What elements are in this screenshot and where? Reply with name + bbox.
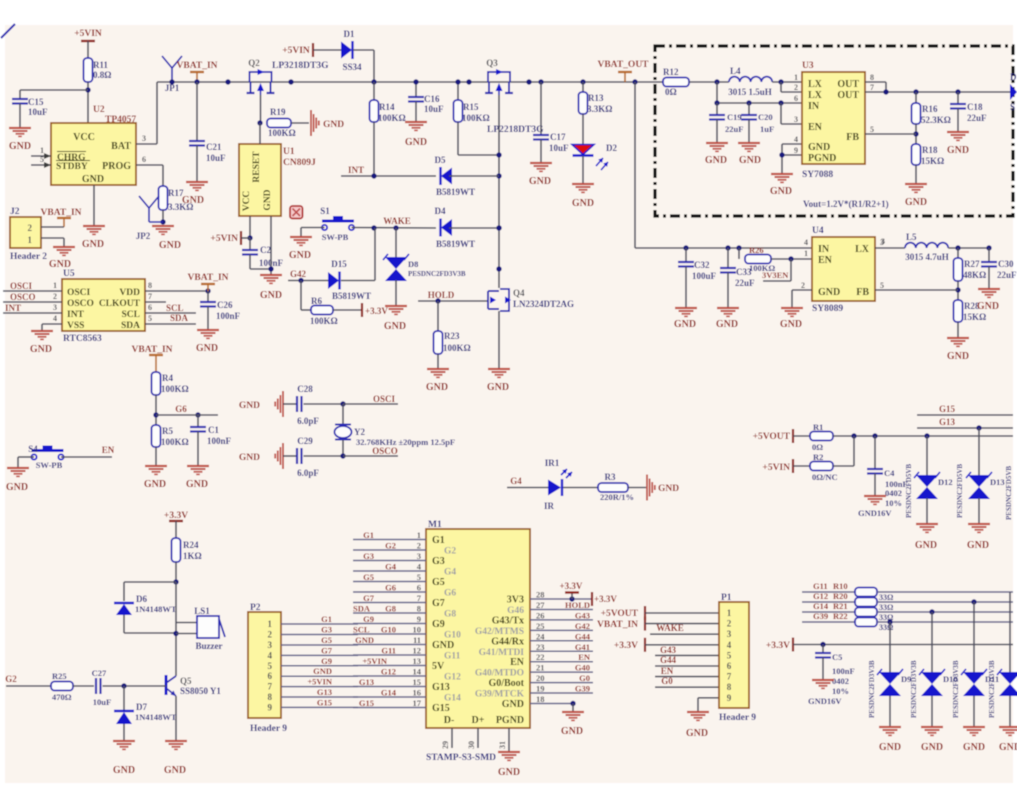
capacitor C26 — [200, 291, 241, 330]
resistor R26 — [739, 245, 812, 273]
dash-dot boundary box — [655, 46, 1013, 216]
resistor R25 — [51, 671, 94, 702]
svg-text:GND: GND — [529, 176, 551, 187]
diode D1 SS34 — [341, 29, 374, 82]
svg-text:GND: GND — [355, 635, 374, 645]
crystal Y2 — [335, 404, 456, 456]
M1 pin 24 wire — [530, 631, 593, 641]
svg-text:R6: R6 — [311, 296, 322, 306]
junction D4/Q3 gate — [496, 225, 501, 230]
M1 pin 2 wire — [353, 541, 426, 551]
svg-text:5: 5 — [40, 155, 44, 164]
svg-text:IR1: IR1 — [545, 458, 560, 468]
Q4 source wire — [498, 311, 500, 369]
capacitor C16 — [408, 82, 444, 122]
svg-text:4: 4 — [268, 650, 273, 660]
svg-text:GND: GND — [947, 351, 969, 362]
svg-text:Y2: Y2 — [354, 427, 365, 437]
net label G44 (M1 pin 24) — [575, 631, 591, 641]
svg-text:G5: G5 — [432, 577, 445, 588]
diode D5 B5819WT — [435, 155, 500, 197]
svg-text:0Ω: 0Ω — [665, 87, 677, 97]
ground D12 — [999, 727, 1017, 753]
junction U1 GND/C2 — [268, 266, 273, 271]
net INT wire (D5) — [341, 165, 436, 176]
M1 pin 27 wire — [530, 600, 593, 610]
svg-text:EN: EN — [818, 255, 833, 266]
svg-text:G6: G6 — [444, 589, 456, 599]
svg-text:100nF: 100nF — [832, 666, 855, 676]
M1 pin 18 wire — [530, 694, 573, 704]
ground U4 — [780, 308, 803, 330]
power port +5VOUT (R1) — [753, 429, 810, 443]
svg-text:C19: C19 — [727, 112, 742, 122]
svg-text:G4: G4 — [385, 562, 397, 572]
net label G13 (P2) — [317, 687, 332, 697]
junction FB U4 — [955, 287, 960, 292]
svg-text:LS1: LS1 — [194, 606, 210, 616]
svg-text:LX: LX — [855, 244, 870, 255]
svg-text:GND: GND — [686, 728, 708, 739]
ground D8 — [384, 306, 407, 332]
svg-text:G41: G41 — [575, 642, 590, 652]
svg-text:GND: GND — [963, 742, 985, 753]
svg-text:24: 24 — [536, 631, 545, 641]
svg-text:16: 16 — [413, 688, 422, 698]
inductor L4 — [728, 66, 802, 97]
svg-text:G0: G0 — [579, 673, 590, 683]
svg-text:10uF: 10uF — [424, 104, 444, 114]
M1 pin 21 wire — [530, 663, 593, 673]
svg-text:1N4148WT: 1N4148WT — [135, 712, 177, 722]
wire R15 to Q3 gate — [458, 122, 499, 155]
P2 pin 1 wire — [281, 623, 358, 625]
diode D15 B5819WT — [328, 228, 375, 301]
svg-text:GND: GND — [239, 401, 260, 411]
junctions U4 rail — [683, 245, 741, 250]
svg-text:GND: GND — [289, 250, 311, 261]
svg-text:SCL: SCL — [122, 310, 140, 320]
svg-text:J2: J2 — [10, 207, 20, 217]
svg-text:+5VOUT: +5VOUT — [601, 609, 639, 619]
capacitor C27 — [92, 668, 166, 707]
svg-text:25: 25 — [536, 621, 545, 631]
svg-text:LP3218DT3G: LP3218DT3G — [272, 61, 329, 71]
Q2 gate wire — [260, 95, 262, 123]
svg-text:8: 8 — [870, 73, 874, 82]
junction L4/LX — [778, 79, 783, 84]
svg-text:3: 3 — [268, 640, 273, 650]
svg-text:CLKOUT: CLKOUT — [99, 299, 141, 309]
svg-text:R25: R25 — [52, 671, 67, 681]
ground C17 — [529, 163, 552, 187]
svg-text:G14: G14 — [381, 688, 397, 698]
P2 pin 8 wire — [281, 696, 358, 698]
svg-text:30: 30 — [467, 741, 476, 749]
svg-text:GND: GND — [263, 189, 273, 210]
S4 left wire to ground — [18, 457, 34, 468]
main VBAT rail — [157, 81, 663, 83]
capacitor C19 — [709, 103, 743, 143]
capacitor C21 — [189, 141, 226, 182]
svg-text:GND: GND — [572, 198, 594, 209]
net label G5 (P2) — [321, 635, 332, 645]
svg-text:Vout=1.2V*(R1/R2+1): Vout=1.2V*(R1/R2+1) — [803, 199, 889, 209]
svg-text:SCL: SCL — [166, 303, 184, 313]
ground M1 pin 18 — [561, 712, 584, 737]
svg-text:Q4: Q4 — [513, 288, 525, 298]
power port VBAT_IN (R4) — [132, 345, 173, 372]
module M1 STAMP-S3-SMD box — [426, 520, 530, 763]
svg-text:22: 22 — [536, 652, 545, 662]
svg-text:3: 3 — [727, 629, 732, 639]
svg-text:G13: G13 — [359, 677, 374, 687]
svg-text:GND: GND — [113, 765, 135, 776]
svg-text:Buzzer: Buzzer — [196, 641, 223, 651]
svg-text:D-: D- — [444, 715, 455, 726]
M1 pin 14 wire — [353, 667, 426, 677]
svg-text:6: 6 — [794, 94, 798, 103]
net G39 wire / resistor R22 — [802, 611, 1013, 632]
svg-text:100KΩ: 100KΩ — [443, 343, 471, 353]
svg-text:VSS: VSS — [67, 321, 84, 331]
U2 pin 5 STDBY wire — [31, 155, 51, 168]
svg-text:GND: GND — [879, 742, 901, 753]
svg-text:3V3: 3V3 — [507, 595, 524, 606]
resistor R13 — [579, 82, 613, 144]
ground R19 (side) — [311, 110, 344, 136]
svg-text:9: 9 — [794, 146, 798, 155]
svg-text:3: 3 — [794, 115, 798, 124]
net label G43 (M1 pin 26) — [575, 610, 590, 620]
svg-text:2: 2 — [417, 541, 421, 551]
svg-text:RTC8563: RTC8563 — [63, 334, 102, 344]
svg-text:SDA: SDA — [353, 604, 371, 614]
ground U1 — [260, 275, 282, 301]
svg-text:3: 3 — [417, 551, 421, 561]
ground U2 — [82, 226, 105, 250]
transistor Q2 — [247, 58, 330, 95]
svg-text:D4: D4 — [435, 206, 446, 216]
svg-text:21: 21 — [536, 663, 545, 673]
svg-text:IN: IN — [808, 101, 820, 112]
ground D2 — [572, 184, 594, 209]
TVS diode D13 — [956, 428, 1005, 524]
svg-text:G43: G43 — [660, 645, 677, 655]
inductor L5 — [875, 232, 989, 262]
svg-text:G2: G2 — [444, 547, 456, 557]
svg-text:1: 1 — [28, 235, 33, 245]
U3 formula text — [803, 199, 889, 209]
svg-text:G5: G5 — [321, 635, 332, 645]
IC U2 TP4057 — [51, 105, 136, 185]
ground C21 — [182, 182, 208, 206]
svg-text:G5: G5 — [363, 572, 374, 582]
ground C15 — [9, 128, 31, 152]
ground Q4 — [487, 369, 510, 393]
svg-text:U2: U2 — [93, 105, 105, 115]
ground R28 — [947, 338, 969, 362]
svg-text:GND16V: GND16V — [808, 696, 842, 706]
svg-text:C32: C32 — [694, 260, 710, 270]
svg-text:G7: G7 — [321, 645, 333, 655]
svg-text:4: 4 — [804, 238, 808, 247]
svg-text:D1: D1 — [344, 29, 355, 39]
svg-text:R10: R10 — [833, 581, 848, 591]
svg-text:Q3: Q3 — [486, 58, 498, 68]
svg-text:4: 4 — [794, 135, 798, 144]
junction G13/D13 — [976, 425, 981, 430]
svg-text:OSCI: OSCI — [67, 288, 91, 298]
ground R17 — [152, 226, 181, 251]
svg-text:C5: C5 — [832, 652, 842, 662]
junction G6 divider — [153, 412, 200, 417]
wire to C15 — [20, 90, 88, 99]
net WAKE wire (P1) — [650, 623, 719, 634]
resistor R15 — [454, 82, 490, 123]
svg-text:B5819WT: B5819WT — [436, 187, 475, 197]
net G44 wire (P1) — [655, 655, 719, 666]
svg-text:10uF: 10uF — [93, 697, 111, 707]
svg-text:VBAT_IN: VBAT_IN — [177, 61, 218, 71]
U4 GND pin wire — [792, 290, 812, 308]
svg-text:GND: GND — [498, 767, 520, 778]
svg-text:GND: GND — [9, 141, 31, 152]
IC U4 SY8089 — [801, 226, 884, 314]
ground C29 (side) — [239, 443, 296, 469]
svg-text:U4: U4 — [812, 226, 824, 236]
resistor R2 — [810, 436, 854, 482]
svg-text:C17: C17 — [550, 132, 566, 142]
svg-text:D5: D5 — [435, 155, 446, 165]
svg-text:INT: INT — [348, 165, 364, 175]
svg-text:OSCO: OSCO — [67, 299, 94, 309]
svg-text:48KΩ: 48KΩ — [963, 270, 986, 280]
junctions IN row — [714, 100, 783, 105]
ground C18 — [947, 132, 969, 156]
svg-text:Header 9: Header 9 — [719, 713, 756, 723]
svg-text:6.0pF: 6.0pF — [297, 468, 319, 478]
svg-text:D2: D2 — [606, 143, 617, 153]
svg-text:GND: GND — [196, 343, 218, 354]
TVS diode D14 label at edge — [1005, 466, 1013, 520]
M1 pin 9 wire — [353, 614, 426, 624]
resistor R6 — [301, 281, 361, 327]
LX tie wire — [781, 82, 802, 92]
svg-text:LN2324DT2AG: LN2324DT2AG — [513, 299, 574, 309]
OUT tie wires — [865, 82, 1016, 92]
U2 pin 1 CHRG wire — [31, 146, 51, 159]
ground S4 — [6, 468, 29, 493]
svg-text:5: 5 — [727, 650, 732, 660]
junction +5VIN/C2 — [247, 235, 252, 240]
junction JP1 — [169, 79, 174, 84]
svg-text:STDBY: STDBY — [56, 162, 88, 172]
M1 pin 1 wire — [353, 530, 426, 540]
svg-text:G11: G11 — [444, 652, 461, 662]
svg-text:3015 1.5uH: 3015 1.5uH — [728, 87, 772, 97]
net label G14 (M1 pin 16) — [381, 688, 397, 698]
ground C1 — [186, 466, 209, 490]
svg-text:1: 1 — [268, 619, 273, 629]
M1 pin 10 wire — [353, 625, 426, 635]
junction R13 — [580, 79, 585, 84]
svg-text:+3.3V: +3.3V — [766, 641, 790, 651]
switch S1 — [320, 206, 354, 242]
M1 pin 16 wire — [353, 688, 426, 698]
svg-text:SY8089: SY8089 — [812, 304, 843, 314]
svg-text:GND: GND — [915, 540, 937, 551]
svg-text:1: 1 — [727, 608, 732, 618]
svg-text:7: 7 — [148, 292, 152, 301]
svg-text:10uF: 10uF — [549, 143, 569, 153]
svg-text:0402: 0402 — [885, 488, 902, 498]
junction C5 — [820, 642, 825, 647]
svg-text:M1: M1 — [428, 520, 442, 530]
svg-text:G14: G14 — [813, 601, 829, 611]
svg-text:OSCO: OSCO — [372, 446, 398, 456]
diode D14 partial at edge — [1010, 72, 1017, 112]
U1 top pin wire — [259, 123, 261, 144]
net label +5VIN (P2) — [307, 677, 333, 687]
svg-text:TP4057: TP4057 — [105, 115, 136, 125]
net G6 wire — [156, 404, 218, 415]
net label SCL (M1) — [353, 625, 370, 635]
svg-text:G9: G9 — [321, 656, 332, 666]
svg-text:52.3KΩ: 52.3KΩ — [921, 115, 951, 125]
svg-text:C2: C2 — [260, 245, 271, 255]
svg-text:3: 3 — [142, 134, 146, 143]
svg-text:VCC: VCC — [242, 191, 252, 212]
junctions TVS columns — [887, 599, 976, 624]
svg-text:D+: D+ — [472, 715, 485, 726]
svg-text:6: 6 — [727, 661, 732, 671]
ground D10 — [921, 727, 943, 753]
junction G42/R6 — [298, 278, 303, 283]
EN tie wire — [781, 103, 802, 124]
svg-text:EN: EN — [510, 657, 525, 668]
svg-text:3: 3 — [881, 237, 885, 246]
svg-text:1: 1 — [804, 249, 808, 258]
svg-text:22uF: 22uF — [735, 278, 755, 288]
svg-text:GND: GND — [780, 319, 802, 330]
capacitor C28 — [297, 384, 343, 426]
svg-text:33Ω: 33Ω — [879, 623, 894, 632]
P1 pin 9 wire to ground — [698, 698, 719, 712]
ground C5 — [812, 680, 834, 688]
net label G7 (P2) — [321, 645, 333, 655]
svg-text:33Ω: 33Ω — [879, 603, 894, 612]
svg-text:6: 6 — [142, 155, 146, 164]
svg-text:VBAT_IN: VBAT_IN — [188, 273, 229, 283]
TVS diode D9 (3V3 array) — [868, 622, 911, 727]
net label HOLD (M1 pin 27) — [565, 600, 590, 610]
net label G13 (M1 pin 15) — [359, 677, 374, 687]
svg-text:5V: 5V — [432, 661, 445, 672]
capacitor C33 — [720, 248, 755, 308]
junction R24/D6 — [173, 579, 178, 584]
svg-text:R23: R23 — [444, 331, 460, 341]
svg-text:GND: GND — [144, 479, 166, 490]
svg-text:+5VIN: +5VIN — [210, 234, 238, 244]
capacitor C2 — [242, 238, 284, 269]
ERC marker no-connect box — [290, 206, 303, 219]
svg-text:G1: G1 — [321, 614, 332, 624]
ground R18 — [905, 184, 927, 208]
svg-text:IR: IR — [544, 501, 555, 511]
svg-text:GND16V: GND16V — [858, 508, 892, 518]
svg-text:1: 1 — [794, 73, 798, 82]
svg-text:3V3EN: 3V3EN — [762, 270, 789, 280]
svg-text:GND: GND — [159, 240, 181, 251]
svg-text:+5VIN: +5VIN — [282, 46, 310, 56]
ground C33 — [716, 308, 739, 330]
svg-text:10uF: 10uF — [28, 107, 48, 117]
svg-text:2: 2 — [727, 619, 732, 629]
svg-text:1: 1 — [417, 530, 421, 540]
M1 bottom pins D- D+ PGND — [441, 728, 509, 752]
svg-text:G3: G3 — [432, 556, 445, 567]
net label G15 (M1 pin 17) — [359, 698, 374, 708]
svg-text:C1: C1 — [208, 425, 219, 435]
svg-text:9: 9 — [268, 702, 273, 712]
svg-text:26: 26 — [536, 610, 545, 620]
M1 pin 3 wire — [353, 551, 426, 561]
svg-text:G10: G10 — [444, 631, 461, 641]
svg-text:PESDNC2FD3V3B: PESDNC2FD3V3B — [408, 270, 466, 278]
svg-text:IN: IN — [818, 244, 830, 255]
svg-text:G44: G44 — [660, 655, 677, 665]
capacitor C20 — [741, 103, 774, 143]
jumper JP2 — [136, 196, 163, 241]
ground Q5 — [164, 741, 187, 776]
svg-text:R20: R20 — [833, 591, 848, 601]
svg-text:GND: GND — [323, 120, 344, 130]
svg-text:GND: GND — [705, 155, 727, 166]
svg-text:14: 14 — [413, 667, 422, 677]
svg-text:22uF: 22uF — [997, 270, 1017, 280]
P2 pin 7 wire — [281, 686, 358, 688]
power port +5VIN (U1) — [210, 231, 250, 245]
svg-text:33Ω: 33Ω — [879, 593, 894, 602]
svg-text:PGND: PGND — [496, 715, 524, 726]
resistor R1 — [810, 422, 1013, 452]
svg-text:R11: R11 — [93, 60, 109, 70]
power port VBAT_IN (P1) — [597, 617, 719, 631]
svg-text:G11: G11 — [813, 581, 828, 591]
svg-text:SW-PB: SW-PB — [36, 460, 63, 470]
svg-text:STAMP-S3-SMD: STAMP-S3-SMD — [426, 753, 496, 763]
resistor R14 — [370, 82, 406, 123]
svg-text:G8: G8 — [385, 604, 396, 614]
J2 pin 1 wire — [41, 238, 64, 247]
power port +5VOUT (P1) — [601, 606, 719, 620]
junction R17/JP2 — [160, 219, 165, 224]
svg-text:100KΩ: 100KΩ — [310, 316, 338, 326]
svg-text:R18: R18 — [922, 145, 938, 155]
svg-text:6: 6 — [417, 583, 421, 593]
ground M1 PGND — [498, 752, 520, 778]
svg-text:G42: G42 — [575, 621, 590, 631]
U5 CLKOUT stub — [145, 301, 166, 303]
net label G7 (M1 pin 7) — [363, 593, 375, 603]
svg-text:SDA: SDA — [170, 313, 189, 323]
svg-text:R3: R3 — [605, 472, 616, 482]
svg-text:GND: GND — [977, 301, 999, 312]
svg-text:G4: G4 — [510, 476, 522, 486]
svg-text:5: 5 — [870, 125, 874, 134]
diode D6 1N4148WT — [114, 594, 177, 633]
